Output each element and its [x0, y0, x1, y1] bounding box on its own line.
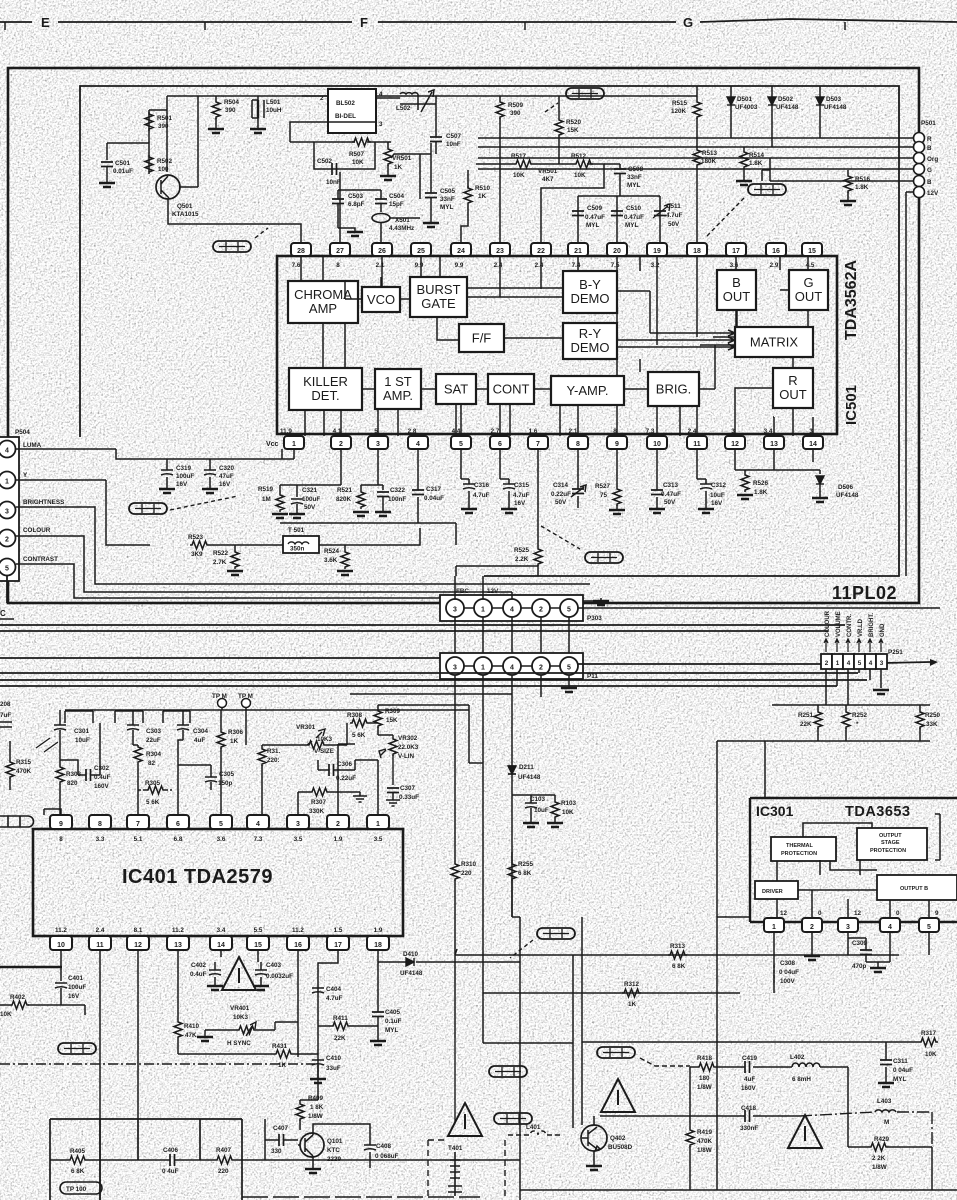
bottom rail y1190 [520, 1189, 957, 1191]
svg-text:D501: D501 [737, 96, 753, 103]
svg-text:12V: 12V [927, 190, 939, 197]
svg-text:14: 14 [809, 441, 817, 448]
svg-text:4: 4 [416, 441, 420, 448]
svg-text:Q101: Q101 [327, 1138, 343, 1145]
svg-text:C314: C314 [553, 482, 569, 489]
dashed pointer WF-4 [255, 228, 268, 238]
IC501 pin 3 [368, 436, 388, 449]
svg-text:11.2: 11.2 [55, 927, 67, 934]
resistor R307 [310, 788, 329, 796]
wire burst gate to B-Y demod upper [467, 287, 563, 289]
svg-text:L502: L502 [396, 105, 411, 112]
svg-text:1.8K: 1.8K [855, 184, 869, 191]
svg-text:R250: R250 [925, 712, 941, 719]
wire drop from P11-3 [454, 852, 456, 1038]
waveform bubble WF-16 [537, 928, 575, 939]
svg-text:4.7uF: 4.7uF [666, 212, 683, 219]
IC501 pin 19 [647, 243, 667, 256]
IC501 pin 25 [411, 243, 431, 256]
wire P11 drops [455, 675, 573, 1043]
svg-text:C317: C317 [426, 486, 442, 493]
svg-text:C503: C503 [348, 193, 364, 200]
svg-text:4.7uF: 4.7uF [473, 492, 490, 499]
capacitor C405 [372, 1012, 384, 1017]
svg-text:0.47uF: 0.47uF [661, 491, 681, 498]
svg-text:C418: C418 [741, 1105, 757, 1112]
svg-text:OUT: OUT [723, 289, 751, 304]
capacitor C311 [885, 1042, 887, 1082]
svg-text:2 2K: 2 2K [872, 1155, 886, 1162]
svg-text:6: 6 [498, 441, 502, 448]
wire top rail y710 [65, 709, 469, 711]
IC501 pin 2 [331, 436, 351, 449]
diode D503 [819, 86, 821, 138]
hook C304 [163, 711, 190, 723]
svg-text:1.6: 1.6 [529, 428, 538, 435]
wire R501 branch [149, 110, 167, 172]
svg-text:33nF: 33nF [440, 196, 455, 203]
svg-text:UF4148: UF4148 [836, 492, 859, 499]
svg-text:R: R [927, 136, 932, 143]
wire Vcc rail y459 [150, 449, 294, 459]
ground C410 [310, 1079, 326, 1083]
svg-text:0.1uF: 0.1uF [385, 1018, 402, 1025]
IC501 block saturation [436, 374, 476, 404]
svg-text:9.9: 9.9 [415, 262, 424, 269]
capacitor C402 [214, 962, 216, 985]
svg-text:IC401 TDA2579: IC401 TDA2579 [122, 866, 273, 888]
svg-text:0.33uF: 0.33uF [399, 794, 419, 801]
resistor R303 [56, 765, 64, 784]
bus y955 [455, 949, 899, 955]
svg-text:15K: 15K [386, 717, 398, 724]
svg-text:2.1: 2.1 [376, 262, 385, 269]
transistor Q501 [156, 175, 180, 199]
chroma section inner box [80, 86, 899, 576]
svg-text:VR.LD: VR.LD [858, 618, 864, 637]
svg-text:11: 11 [96, 942, 104, 949]
svg-text:5.5: 5.5 [254, 927, 263, 934]
svg-text:3.5: 3.5 [294, 836, 303, 843]
IC501 block R-Y demod [563, 323, 617, 359]
svg-text:180: 180 [699, 1075, 710, 1082]
svg-text:1K: 1K [394, 164, 403, 171]
svg-text:R431: R431 [272, 1043, 288, 1050]
capacitor C308 [773, 965, 775, 985]
waveform bubble WF-9 [748, 184, 786, 195]
svg-text:VOLUME: VOLUME [836, 611, 842, 637]
resistor R407 [215, 1156, 234, 1164]
IC501 pin 4 [408, 436, 428, 449]
P504 pin 3 [0, 502, 16, 519]
svg-text:10K: 10K [513, 172, 525, 179]
svg-text:0 04uF: 0 04uF [779, 969, 799, 976]
svg-text:UF4148: UF4148 [518, 774, 541, 781]
wire pin14 stub [812, 449, 814, 462]
svg-text:0.47uF: 0.47uF [624, 214, 644, 221]
IC401 pin 18 [367, 936, 389, 950]
svg-text:UF4148: UF4148 [824, 104, 847, 111]
wire IC501 internal [773, 417, 813, 436]
svg-text:E: E [41, 15, 50, 30]
IC401 pin 16 [287, 936, 309, 950]
ground R527 [609, 510, 625, 514]
ground R521 [353, 512, 369, 516]
svg-text:R507: R507 [349, 151, 365, 158]
wire collector y523 [280, 523, 456, 545]
wire IC501 internal [616, 313, 618, 323]
svg-text:12: 12 [731, 441, 739, 448]
svg-text:R526: R526 [753, 480, 769, 487]
svg-text:6 8K: 6 8K [71, 1168, 85, 1175]
waveform bubble WF-3 [58, 1043, 96, 1054]
svg-text:50V: 50V [555, 499, 567, 506]
bus rail y741 [717, 740, 930, 742]
svg-text:0 04uF: 0 04uF [893, 1067, 913, 1074]
wire IC501 internal [380, 277, 382, 287]
pointer dash WF-17 [310, 1043, 355, 1052]
svg-text:4.7uF: 4.7uF [326, 995, 343, 1002]
svg-text:8: 8 [576, 441, 580, 448]
svg-text:7.3: 7.3 [646, 428, 655, 435]
svg-text:Q501: Q501 [177, 203, 193, 210]
IC501 pin 17 [726, 243, 746, 256]
IC501 pin 15 [802, 243, 822, 256]
wire P504 ground leg [6, 576, 8, 603]
ground R519 [272, 514, 288, 518]
resistor R311 [261, 745, 263, 815]
svg-text:R517: R517 [511, 153, 527, 160]
IC501 pin 21 [568, 243, 588, 256]
ruler tick 1 [4, 22, 6, 30]
wire IC501 internal [736, 310, 793, 436]
resistor R525 [537, 449, 539, 576]
capacitor C505 [430, 154, 432, 222]
dashed pointer WF-6 [541, 526, 580, 549]
IC301 block driver [755, 881, 798, 899]
svg-text:T401: T401 [448, 1145, 463, 1152]
ground IC301 pin4 [866, 962, 890, 968]
wire IC501 internal [617, 327, 640, 376]
svg-text:0.4uF: 0.4uF [190, 971, 207, 978]
svg-text:OUT: OUT [795, 289, 823, 304]
svg-text:3.4: 3.4 [764, 428, 773, 435]
svg-text:5: 5 [567, 665, 571, 672]
svg-text:1.8K: 1.8K [754, 489, 768, 496]
wire y1067 [690, 1067, 848, 1147]
svg-text:R418: R418 [697, 1055, 713, 1062]
svg-text:17: 17 [732, 248, 740, 255]
svg-text:C304: C304 [193, 728, 209, 735]
svg-text:MYL: MYL [440, 204, 453, 211]
svg-text:C309: C309 [852, 940, 868, 947]
svg-text:1: 1 [5, 479, 9, 486]
svg-text:1 ST: 1 ST [384, 374, 412, 389]
svg-text:820K: 820K [336, 496, 352, 503]
svg-text:P504: P504 [15, 429, 30, 436]
svg-text:2.2K: 2.2K [515, 556, 529, 563]
svg-text:0: 0 [818, 910, 822, 917]
svg-text:Y-AMP.: Y-AMP. [567, 383, 609, 398]
svg-text:7: 7 [536, 441, 540, 448]
svg-text:150p: 150p [218, 780, 233, 787]
trimmer capacitor C511 [654, 211, 666, 216]
P504 pin 4 [0, 441, 16, 458]
waveform bubble WF-15 [494, 1113, 532, 1124]
ground P251 [873, 690, 889, 694]
capacitor C312 [697, 449, 706, 508]
wire IC501 internal [699, 345, 715, 389]
svg-text:2: 2 [5, 537, 9, 544]
wire IC501 internal [456, 404, 461, 436]
wire pin2 branch [280, 449, 341, 497]
svg-text:390: 390 [510, 110, 521, 117]
wire C501 branch [107, 143, 149, 160]
svg-text:P501: P501 [921, 120, 936, 127]
svg-text:OUTPUT B: OUTPUT B [900, 886, 928, 892]
wire x455 lower [454, 1038, 456, 1122]
svg-text:Org: Org [927, 156, 938, 163]
wire P251 drops [826, 669, 881, 705]
IC501 block matrix [735, 327, 813, 357]
IC501 block Y amp [551, 376, 624, 405]
svg-text:5: 5 [459, 441, 463, 448]
svg-text:4: 4 [379, 91, 383, 98]
wire Q501 emitter down and right to pin 28 [168, 199, 301, 243]
capacitor C304 [177, 725, 189, 730]
svg-text:R520: R520 [566, 119, 582, 126]
waveform bubble WF-2 [0, 816, 34, 827]
capacitor C303 [127, 725, 139, 730]
wire demod to matrix bus 3 [617, 344, 735, 350]
wire top rail y96 [167, 95, 697, 97]
IC501 body [277, 256, 837, 434]
svg-text:BI-DEL: BI-DEL [335, 113, 356, 120]
svg-text:11.2: 11.2 [292, 927, 304, 934]
svg-text:10K: 10K [352, 159, 364, 166]
svg-text:AMP.: AMP. [383, 388, 413, 403]
svg-text:4.7uF: 4.7uF [513, 492, 530, 499]
svg-text:3: 3 [379, 121, 383, 128]
svg-text:C408: C408 [376, 1143, 392, 1150]
warning triangle 3 [601, 1079, 635, 1112]
svg-text:B: B [732, 275, 741, 290]
ground R307 [353, 796, 367, 802]
IC501 pin 28 [291, 243, 311, 256]
IC501 pin 11 [687, 436, 707, 449]
resistor R516 [847, 170, 849, 200]
svg-text:C312: C312 [711, 482, 727, 489]
IC301 internal wires [777, 814, 940, 918]
svg-text:C504: C504 [389, 193, 405, 200]
svg-text:C404: C404 [326, 986, 342, 993]
svg-text:9.9: 9.9 [455, 262, 464, 269]
svg-text:10K: 10K [0, 1011, 12, 1018]
svg-text:BURST: BURST [416, 282, 460, 297]
svg-text:TDA3562A: TDA3562A [843, 260, 860, 340]
svg-text:R305: R305 [145, 780, 161, 787]
svg-text:C410: C410 [326, 1055, 342, 1062]
IC401 pin 15 [247, 936, 269, 950]
capacitor C322 [377, 492, 389, 497]
svg-text:KTC: KTC [327, 1147, 340, 1154]
svg-text:R315: R315 [16, 759, 32, 766]
svg-text:120K: 120K [671, 108, 687, 115]
svg-text:X501: X501 [395, 217, 410, 224]
capacitor C103 [525, 803, 537, 808]
dashed pointer WF-16 [510, 940, 533, 958]
svg-text:R410: R410 [184, 1023, 200, 1030]
IC501 pin 1 [284, 436, 304, 449]
svg-text:2.4: 2.4 [494, 262, 503, 269]
svg-text:R252: R252 [852, 712, 868, 719]
svg-text:M: M [884, 1119, 889, 1126]
bus line y602 [583, 602, 919, 603]
svg-text:82: 82 [148, 760, 156, 767]
ground C307 [386, 800, 400, 806]
svg-text:330K: 330K [309, 808, 325, 815]
wire R309 top rail to right [338, 705, 483, 815]
svg-text:VR501: VR501 [392, 155, 412, 162]
ruler tick 3 [524, 22, 526, 30]
svg-text:COLOUR: COLOUR [23, 527, 51, 534]
svg-text:KILLER: KILLER [303, 374, 348, 389]
svg-text:15: 15 [808, 248, 816, 255]
wire IC501 internal [345, 281, 362, 368]
bus line y673 [0, 672, 858, 674]
wire P303-P11 links [455, 617, 569, 656]
IC401 pin 4 [247, 815, 269, 829]
ruler tick 4 [844, 22, 846, 30]
svg-text:220: 220 [461, 870, 472, 877]
ground VR501 [380, 176, 396, 180]
capacitor C307 [387, 788, 399, 793]
svg-text:R307: R307 [311, 799, 327, 806]
capacitor C407 [279, 1134, 284, 1146]
svg-text:3: 3 [453, 607, 457, 614]
bottom rail y1197 [242, 1196, 480, 1198]
svg-text:2.4: 2.4 [688, 428, 697, 435]
resistor R252 [845, 705, 847, 741]
svg-text:25: 25 [417, 248, 425, 255]
resistor R526 [741, 473, 749, 492]
wire pin11 long drop [99, 950, 101, 1200]
ground L501 [250, 129, 266, 133]
svg-text:8.1: 8.1 [134, 927, 143, 934]
bus line y625 [0, 624, 845, 626]
bus line y680 [0, 679, 867, 681]
svg-text:FBC: FBC [456, 588, 469, 595]
ground C319 [159, 489, 175, 493]
svg-text:22K: 22K [334, 1035, 346, 1042]
bus y1042 right [582, 1041, 919, 1043]
svg-text:C510: C510 [626, 205, 642, 212]
capacitor C302 [86, 769, 91, 781]
IC501 block killer detector [289, 368, 362, 410]
svg-text:4.5: 4.5 [806, 262, 815, 269]
resistor R521 [357, 490, 365, 509]
svg-text:R501: R501 [157, 115, 173, 122]
svg-text:DEMO: DEMO [571, 291, 610, 306]
IC401 pin 10 [50, 936, 72, 950]
wire IC501 internal [656, 256, 658, 327]
svg-text:R402: R402 [10, 994, 26, 1001]
svg-text:VR401: VR401 [230, 1005, 250, 1012]
IC501 block B out [717, 270, 756, 310]
svg-text:GND: GND [880, 623, 886, 637]
wire BL502 pin2 [302, 95, 328, 97]
svg-text:13: 13 [770, 441, 778, 448]
svg-text:C401: C401 [68, 975, 84, 982]
svg-text:1K: 1K [278, 1062, 287, 1069]
svg-text:6.8pF: 6.8pF [348, 201, 365, 208]
svg-text:5 6K: 5 6K [146, 799, 160, 806]
svg-text:11: 11 [693, 441, 701, 448]
ground Q402 [586, 1166, 602, 1170]
svg-text:SAT: SAT [444, 382, 468, 397]
resistor R250 [919, 705, 921, 741]
svg-text:4: 4 [5, 448, 9, 455]
svg-text:R411: R411 [333, 1015, 348, 1022]
delay line BL502 [328, 89, 376, 133]
capacitor C317 [417, 449, 419, 523]
resistor R317 [919, 1038, 938, 1046]
svg-text:8: 8 [59, 836, 63, 843]
waveform bubble WF-5 [129, 503, 167, 514]
IC501 block chroma amp [288, 281, 358, 323]
svg-text:C501: C501 [115, 160, 131, 167]
svg-text:3.6K: 3.6K [324, 557, 338, 564]
svg-text:1K: 1K [230, 738, 239, 745]
svg-text:2: 2 [336, 821, 340, 828]
bus line y658 [0, 657, 440, 659]
svg-text:R409: R409 [308, 1095, 324, 1102]
capacitor C410 [312, 1060, 324, 1065]
IC301 block output stage protection [857, 828, 927, 860]
svg-text:CONTRAST: CONTRAST [23, 556, 58, 563]
wire Q501 collector right [179, 96, 198, 187]
wire collector rail Q101 [313, 1124, 370, 1140]
svg-text:6: 6 [176, 821, 180, 828]
wire IC501 internal [807, 310, 809, 327]
arrowhead main line [930, 659, 938, 666]
ground C320 [202, 489, 218, 493]
wire pin27 drop [339, 172, 341, 243]
IC501 block B-Y demod [563, 271, 617, 313]
svg-text:D410: D410 [403, 951, 419, 958]
svg-text:4: 4 [869, 660, 873, 667]
svg-text:7.6: 7.6 [292, 262, 301, 269]
diode D211 [508, 766, 516, 774]
svg-text:F/F: F/F [472, 331, 492, 346]
svg-text:50V: 50V [304, 504, 316, 511]
svg-text:3: 3 [880, 660, 884, 667]
inductor L403 [875, 1110, 896, 1112]
svg-text:R516: R516 [855, 176, 871, 183]
IC501 block 1st amp [375, 369, 421, 409]
svg-text:1: 1 [376, 821, 380, 828]
svg-text:AMP: AMP [309, 301, 337, 316]
svg-text:19: 19 [653, 248, 661, 255]
IC401 pin 11 [89, 936, 111, 950]
wire IC501 internal [421, 388, 436, 390]
bus line y608 [578, 607, 940, 609]
wire y566 stub [456, 566, 538, 576]
svg-text:VR302: VR302 [398, 735, 418, 742]
IC501 block contrast [488, 374, 534, 404]
svg-text:50V: 50V [668, 221, 680, 228]
svg-text:C315: C315 [514, 482, 530, 489]
